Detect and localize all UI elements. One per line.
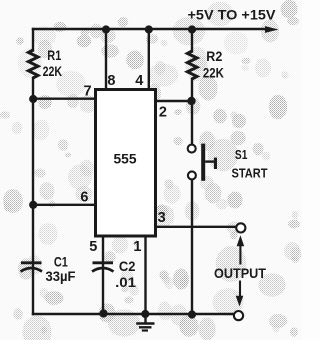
svg-text:S1: S1 xyxy=(235,147,248,162)
svg-text:R2: R2 xyxy=(206,48,222,64)
svg-text:22K: 22K xyxy=(43,63,63,79)
svg-text:5: 5 xyxy=(89,239,97,255)
svg-text:6: 6 xyxy=(80,190,88,206)
svg-text:C2: C2 xyxy=(119,258,136,274)
svg-text:7: 7 xyxy=(84,84,92,100)
svg-text:33µF: 33µF xyxy=(46,268,76,284)
svg-text:1: 1 xyxy=(133,239,141,255)
svg-text:R1: R1 xyxy=(47,47,61,63)
svg-text:4: 4 xyxy=(135,73,143,89)
svg-text:22K: 22K xyxy=(203,65,224,81)
svg-text:8: 8 xyxy=(107,73,115,89)
svg-text:3: 3 xyxy=(158,210,166,226)
svg-text:555: 555 xyxy=(114,151,137,167)
svg-text:+5V TO +15V: +5V TO +15V xyxy=(188,7,277,23)
svg-text:OUTPUT: OUTPUT xyxy=(214,265,266,281)
svg-text:2: 2 xyxy=(159,105,167,121)
svg-text:START: START xyxy=(232,166,268,181)
svg-text:.01: .01 xyxy=(115,274,136,290)
